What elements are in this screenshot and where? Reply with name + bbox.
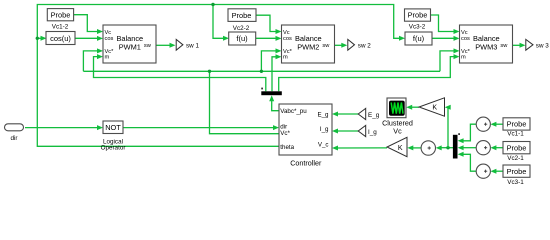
sum 2 <box>476 141 490 155</box>
wire E_g tag to controller <box>337 113 358 115</box>
svg-text:Probe: Probe <box>507 143 527 152</box>
goto tag sw2 <box>348 39 355 50</box>
wire sum to K gain <box>412 147 421 149</box>
wire f(u)2 to PWM2 cos <box>254 37 277 39</box>
wire PWM2 sw to tag sw2 <box>335 44 343 46</box>
probe Vc3-2 <box>405 9 431 21</box>
svg-text:Controller: Controller <box>290 158 322 167</box>
svg-text:E_g: E_g <box>317 111 329 118</box>
wire demux out1 to PWM1 m <box>94 57 266 92</box>
goto tag sw1 <box>176 39 183 50</box>
svg-text:m: m <box>105 54 110 60</box>
svg-text:Probe: Probe <box>507 120 527 129</box>
node Vc*-controller junction <box>208 70 211 73</box>
fcn cos(u) <box>46 32 75 45</box>
svg-text:Vc*: Vc* <box>280 130 290 137</box>
svg-text:PWM3: PWM3 <box>475 42 497 51</box>
svg-text:E_g: E_g <box>368 112 380 119</box>
node Vc*-PWM2 junction <box>260 70 263 73</box>
wire Vc* net: controller Vc* output up and across <box>210 71 280 133</box>
wire sum2 to mux <box>463 147 477 149</box>
svg-text:sw: sw <box>144 43 152 49</box>
goto tag sw3 <box>526 39 533 50</box>
node theta-cos junction <box>36 37 39 40</box>
svg-text:f(u): f(u) <box>413 34 425 43</box>
svg-text:K: K <box>398 145 403 152</box>
probe Vc2-1 <box>503 142 530 154</box>
probe Vc1-2 <box>47 9 73 21</box>
wire sum3 to mux <box>463 154 477 171</box>
svg-text:Vc: Vc <box>393 126 402 135</box>
svg-text:K: K <box>432 105 437 112</box>
node mux-out junction <box>446 146 449 149</box>
wire Probe Vc3-2 to PWM3 Vc <box>431 15 455 32</box>
arrowheads <box>41 36 47 41</box>
wire I_g tag to controller <box>337 130 358 132</box>
wire Probe Vc3-1 to sum3 <box>496 170 503 172</box>
svg-text:I_g: I_g <box>368 129 377 136</box>
fcn f(u)3 <box>405 32 432 45</box>
scope Clustered Vc <box>387 98 406 118</box>
svg-text:sw: sw <box>322 43 330 49</box>
wire sum1 to mux <box>463 124 477 141</box>
subsystem Balance PWM1 <box>103 25 156 63</box>
svg-text:Vc3-2: Vc3-2 <box>409 23 426 30</box>
sum (avg) <box>421 141 435 155</box>
svg-text:Probe: Probe <box>507 167 527 176</box>
svg-text:V_c: V_c <box>318 141 329 148</box>
gain K1 (to controller V_c) <box>387 137 407 156</box>
sum 3 <box>476 164 490 178</box>
wire junction up to K2 gain <box>448 107 450 148</box>
wire theta: controller theta output to top distribution line <box>37 5 400 147</box>
svg-text:PWM2: PWM2 <box>297 42 319 51</box>
probe Vc3-1 <box>503 165 530 177</box>
svg-text:m: m <box>461 54 466 60</box>
wire Probe Vc1-2 to PWM1 Vc <box>74 15 98 32</box>
svg-text:Probe: Probe <box>408 11 428 20</box>
demux (horizontal bar) <box>261 91 282 95</box>
wire PWM1 sw to tag sw1 <box>156 44 171 46</box>
svg-text:Vc: Vc <box>105 30 112 36</box>
svg-text:sw 3: sw 3 <box>536 43 549 50</box>
svg-text:Vc3-1: Vc3-1 <box>507 179 524 186</box>
wire Probe Vc1-1 to sum1 <box>496 123 503 125</box>
svg-text:Vabc*_pu: Vabc*_pu <box>280 108 307 115</box>
probe Vc2-2 <box>228 9 256 22</box>
svg-text:Probe: Probe <box>51 10 71 19</box>
svg-text:I_g: I_g <box>320 126 329 133</box>
svg-text:Probe: Probe <box>232 11 252 20</box>
wire Probe Vc2-2 to PWM2 Vc <box>255 15 277 31</box>
wire f(u)3 to PWM3 cos <box>432 37 455 39</box>
svg-text:Vc1-1: Vc1-1 <box>507 131 524 138</box>
svg-text:cos: cos <box>461 36 470 42</box>
svg-text:Vc1-2: Vc1-2 <box>52 23 69 30</box>
gain K2 (to scope) <box>419 98 445 116</box>
svg-text:m: m <box>283 54 288 60</box>
wire cos(u) to PWM1 cos <box>75 37 98 39</box>
svg-text:f(u): f(u) <box>236 34 248 43</box>
svg-text:cos(u): cos(u) <box>50 34 71 43</box>
svg-text:sw 2: sw 2 <box>358 43 371 50</box>
svg-text:NOT: NOT <box>105 123 121 132</box>
wire Probe Vc2-1 to sum2 <box>496 147 503 149</box>
inport dir <box>5 124 24 131</box>
svg-text:dir: dir <box>11 135 18 142</box>
svg-text:PWM1: PWM1 <box>119 42 141 51</box>
wire NOT to controller dir <box>123 127 274 129</box>
wire demux out3 to PWM3 m <box>279 57 455 92</box>
wire mux out to sum <box>441 147 453 149</box>
wire PWM3 sw to tag sw3 <box>513 44 521 46</box>
from tag E_g <box>358 108 366 119</box>
probe Vc1-1 <box>503 118 530 130</box>
svg-text:Vc: Vc <box>283 30 290 36</box>
wire theta branch to f(u)2 <box>213 5 224 39</box>
wire K gain to controller V_c <box>337 147 387 149</box>
wire dir port to NOT <box>25 127 98 129</box>
wire controller Vabc*_pu to demux <box>272 100 279 110</box>
svg-text:Vc: Vc <box>461 30 468 36</box>
wire theta branch to cos(u) <box>37 37 41 39</box>
wire K2 gain to scope <box>411 106 419 108</box>
logic NOT <box>103 121 123 134</box>
svg-text:cos: cos <box>283 36 292 42</box>
svg-text:sw: sw <box>500 43 508 49</box>
mux (vertical bar) <box>453 135 458 159</box>
from tag I_g <box>358 125 366 136</box>
subsystem Balance PWM2 <box>282 25 335 63</box>
svg-text:Vc2-1: Vc2-1 <box>507 155 524 162</box>
svg-text:cos: cos <box>105 36 114 42</box>
svg-text:Vc2-2: Vc2-2 <box>233 25 250 32</box>
svg-text:Operator: Operator <box>101 145 126 152</box>
subsystem Balance PWM3 <box>460 25 513 63</box>
wire demux out2 to PWM2 m <box>272 57 277 92</box>
fcn f(u)2 <box>229 32 256 45</box>
sum 1 <box>476 117 490 131</box>
node theta-fu2 junction <box>211 3 214 6</box>
svg-text:theta: theta <box>280 144 294 151</box>
svg-text:sw 1: sw 1 <box>186 43 199 50</box>
subsystem Controller <box>279 104 332 155</box>
